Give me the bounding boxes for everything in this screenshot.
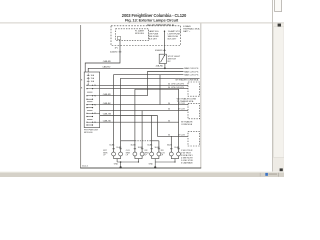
wire lamp3a feed row	[100, 115, 158, 117]
svg-text:Fig. 13: Exterior Lamps Circui: Fig. 13: Exterior Lamps Circuit	[125, 18, 179, 23]
svg-text:(F): (F)	[115, 48, 118, 50]
fuse F2 label block	[168, 30, 182, 41]
ground G2	[154, 166, 156, 168]
connector ticks on feeds	[112, 148, 179, 150]
power dist module dashed box	[111, 26, 181, 46]
svg-text:LPS CLR LPS: LPS CLR LPS	[171, 87, 184, 89]
trailer connector box 1	[188, 82, 200, 96]
wire row to loop	[100, 95, 148, 97]
svg-text:BLK DET: BLK DET	[148, 38, 157, 40]
bulkhead module box	[84, 72, 100, 128]
svg-text:30: 30	[168, 134, 170, 136]
connector tick left	[119, 51, 122, 53]
wire lamp4b feed loop	[135, 89, 179, 152]
bulkhead pin labels	[91, 74, 95, 83]
svg-text:CAB-RD: CAB-RD	[103, 60, 112, 63]
svg-text:F1: F1	[94, 85, 96, 87]
wire fuse F2 down	[164, 31, 166, 54]
wire clearance row 2	[148, 72, 184, 96]
svg-text:NC: NC	[168, 61, 172, 63]
scrollbar up arrow	[278, 24, 281, 27]
wire lamp3a drop	[151, 116, 153, 153]
svg-text:CAB-BK: CAB-BK	[103, 102, 111, 105]
wire to trailer box 2 pin B	[100, 110, 188, 112]
svg-text:42A-RD: 42A-RD	[110, 51, 118, 54]
svg-text:BATT +: BATT +	[183, 30, 191, 33]
horizontal rule	[0, 22, 284, 24]
svg-text:F3: F3	[94, 96, 96, 98]
wire clearance row 4 / lamp1b feed	[121, 78, 200, 152]
battery feed label	[183, 25, 200, 33]
svg-text:Data 1: Data 1	[82, 165, 89, 168]
wire fuse F1 down	[85, 40, 120, 72]
svg-text:GND: GND	[114, 163, 119, 165]
svg-text:MAR CLR LPS: MAR CLR LPS	[184, 67, 199, 70]
ground wiring group 3-4	[152, 156, 179, 167]
page left border	[80, 25, 82, 168]
svg-text:42A-RD: 42A-RD	[155, 49, 163, 52]
wire lamp2a feed	[134, 89, 136, 152]
svg-text:42A-RD: 42A-RD	[156, 65, 164, 68]
svg-text:6 CAB MAIN: 6 CAB MAIN	[181, 161, 193, 164]
stop light switch	[159, 54, 166, 63]
scrollbar thumb lower	[274, 27, 285, 158]
taskbar segment marks	[269, 173, 278, 175]
junction stop light	[164, 67, 166, 69]
lamp group 4 label	[161, 150, 165, 157]
bulkhead top pin chain	[87, 74, 90, 85]
fuse rows	[87, 85, 100, 125]
taskbar	[0, 172, 284, 177]
svg-text:MAR CLR LPS: MAR CLR LPS	[184, 70, 199, 73]
svg-text:GND: GND	[149, 163, 154, 165]
ground junction dots	[120, 161, 122, 163]
scrollbar thumb upper pane	[275, 0, 282, 12]
svg-text:CAB-RD: CAB-RD	[102, 65, 111, 68]
svg-text:30: 30	[168, 103, 170, 105]
page bottom border	[80, 167, 201, 169]
lamp L6	[157, 152, 161, 156]
ground wiring group 1-2	[114, 156, 143, 167]
svg-text:30-BK: 30-BK	[167, 145, 173, 147]
svg-text:30: 30	[168, 84, 170, 86]
scrollbar divider	[272, 0, 274, 172]
wire clearance drop	[159, 75, 161, 105]
svg-text:30: 30	[168, 121, 170, 123]
lamp group 2 label	[126, 150, 131, 157]
svg-text:30: 30	[168, 109, 170, 111]
wire lamp3b feed	[158, 141, 160, 152]
svg-text:30: 30	[168, 87, 170, 89]
wire marker lamp feed bus	[88, 68, 183, 72]
relay inside dash module	[117, 36, 120, 39]
taskbar blue icon	[265, 173, 268, 176]
page right border	[200, 23, 202, 168]
svg-text:CAB-RD: CAB-RD	[103, 93, 112, 96]
wire to trailer box 1 pin A	[100, 84, 188, 86]
marker clearance lamp labels	[184, 67, 199, 76]
svg-text:W/ TRAILER CONN MCA: W/ TRAILER CONN MCA	[175, 79, 198, 82]
wire to trailer box 2 pin A	[100, 104, 188, 106]
lamp L8	[177, 152, 181, 156]
wire clearance chain solid left	[121, 140, 135, 142]
wire lamp2b feed	[141, 111, 143, 152]
svg-text:F7: F7	[94, 113, 96, 115]
svg-text:F9: F9	[94, 122, 96, 124]
node fuse F2 top	[164, 31, 165, 32]
svg-text:MODULE: MODULE	[135, 33, 145, 35]
wire loop to trailer box 3	[158, 116, 189, 137]
trailer connector box 3	[188, 132, 200, 146]
svg-text:MODULE: MODULE	[84, 132, 93, 134]
bulkhead row labels	[94, 85, 96, 124]
lamp group 1 label	[103, 150, 108, 157]
wire clearance chain dashed	[135, 140, 151, 142]
wire tee to lamp4b	[100, 121, 179, 123]
fuse row dots	[86, 85, 93, 126]
connector tick right	[163, 49, 166, 51]
lamp L7	[169, 152, 173, 156]
svg-text:F5: F5	[94, 105, 96, 107]
dash module inner dashed box	[116, 29, 149, 41]
fuse F1 label block	[148, 30, 159, 41]
wire clearance chain solid right	[151, 140, 159, 142]
svg-text:30-BK: 30-BK	[147, 145, 153, 147]
wire lamp4a feed	[170, 136, 172, 152]
svg-text:MAR CLR LPS: MAR CLR LPS	[184, 74, 199, 77]
bulkhead pin dots top	[88, 75, 89, 85]
svg-text:LPS CLR LPS: LPS CLR LPS	[171, 84, 184, 86]
svg-text:LT CLR: LT CLR	[178, 103, 185, 105]
svg-text:LT CLR: LT CLR	[178, 134, 185, 136]
svg-text:CONN MCA: CONN MCA	[181, 123, 193, 126]
svg-text:BLK DET: BLK DET	[168, 38, 177, 40]
lamp L4	[140, 152, 144, 156]
scrollbar down arrow	[280, 168, 283, 171]
wire switch to junction	[164, 64, 166, 69]
lamp group 3 label	[145, 150, 150, 157]
svg-text:CAB-GN: CAB-GN	[103, 113, 112, 116]
lamp L1	[112, 152, 116, 156]
svg-text:30-BK: 30-BK	[109, 145, 115, 147]
lamp L2	[119, 152, 123, 156]
lamp L3	[133, 152, 137, 156]
ground G1	[120, 166, 122, 168]
svg-text:30-BK: 30-BK	[131, 145, 137, 147]
svg-text:LT CLR: LT CLR	[178, 109, 185, 111]
wire to trailer box 1 pin B	[100, 88, 188, 90]
notes list	[181, 150, 194, 165]
scrollbar track	[273, 24, 284, 172]
wire clearance row 3 / lamp1a feed	[114, 75, 184, 152]
svg-text:CAB-GD: CAB-GD	[103, 119, 112, 122]
trailer connector box 2	[188, 104, 200, 119]
stop light switch label	[168, 56, 181, 63]
lamp L5	[150, 152, 154, 156]
